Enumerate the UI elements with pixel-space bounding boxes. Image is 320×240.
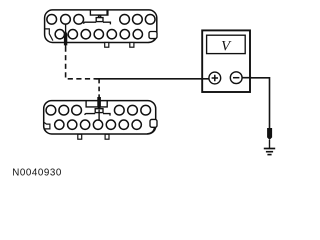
svg-text:N0040930: N0040930 [12, 168, 62, 179]
